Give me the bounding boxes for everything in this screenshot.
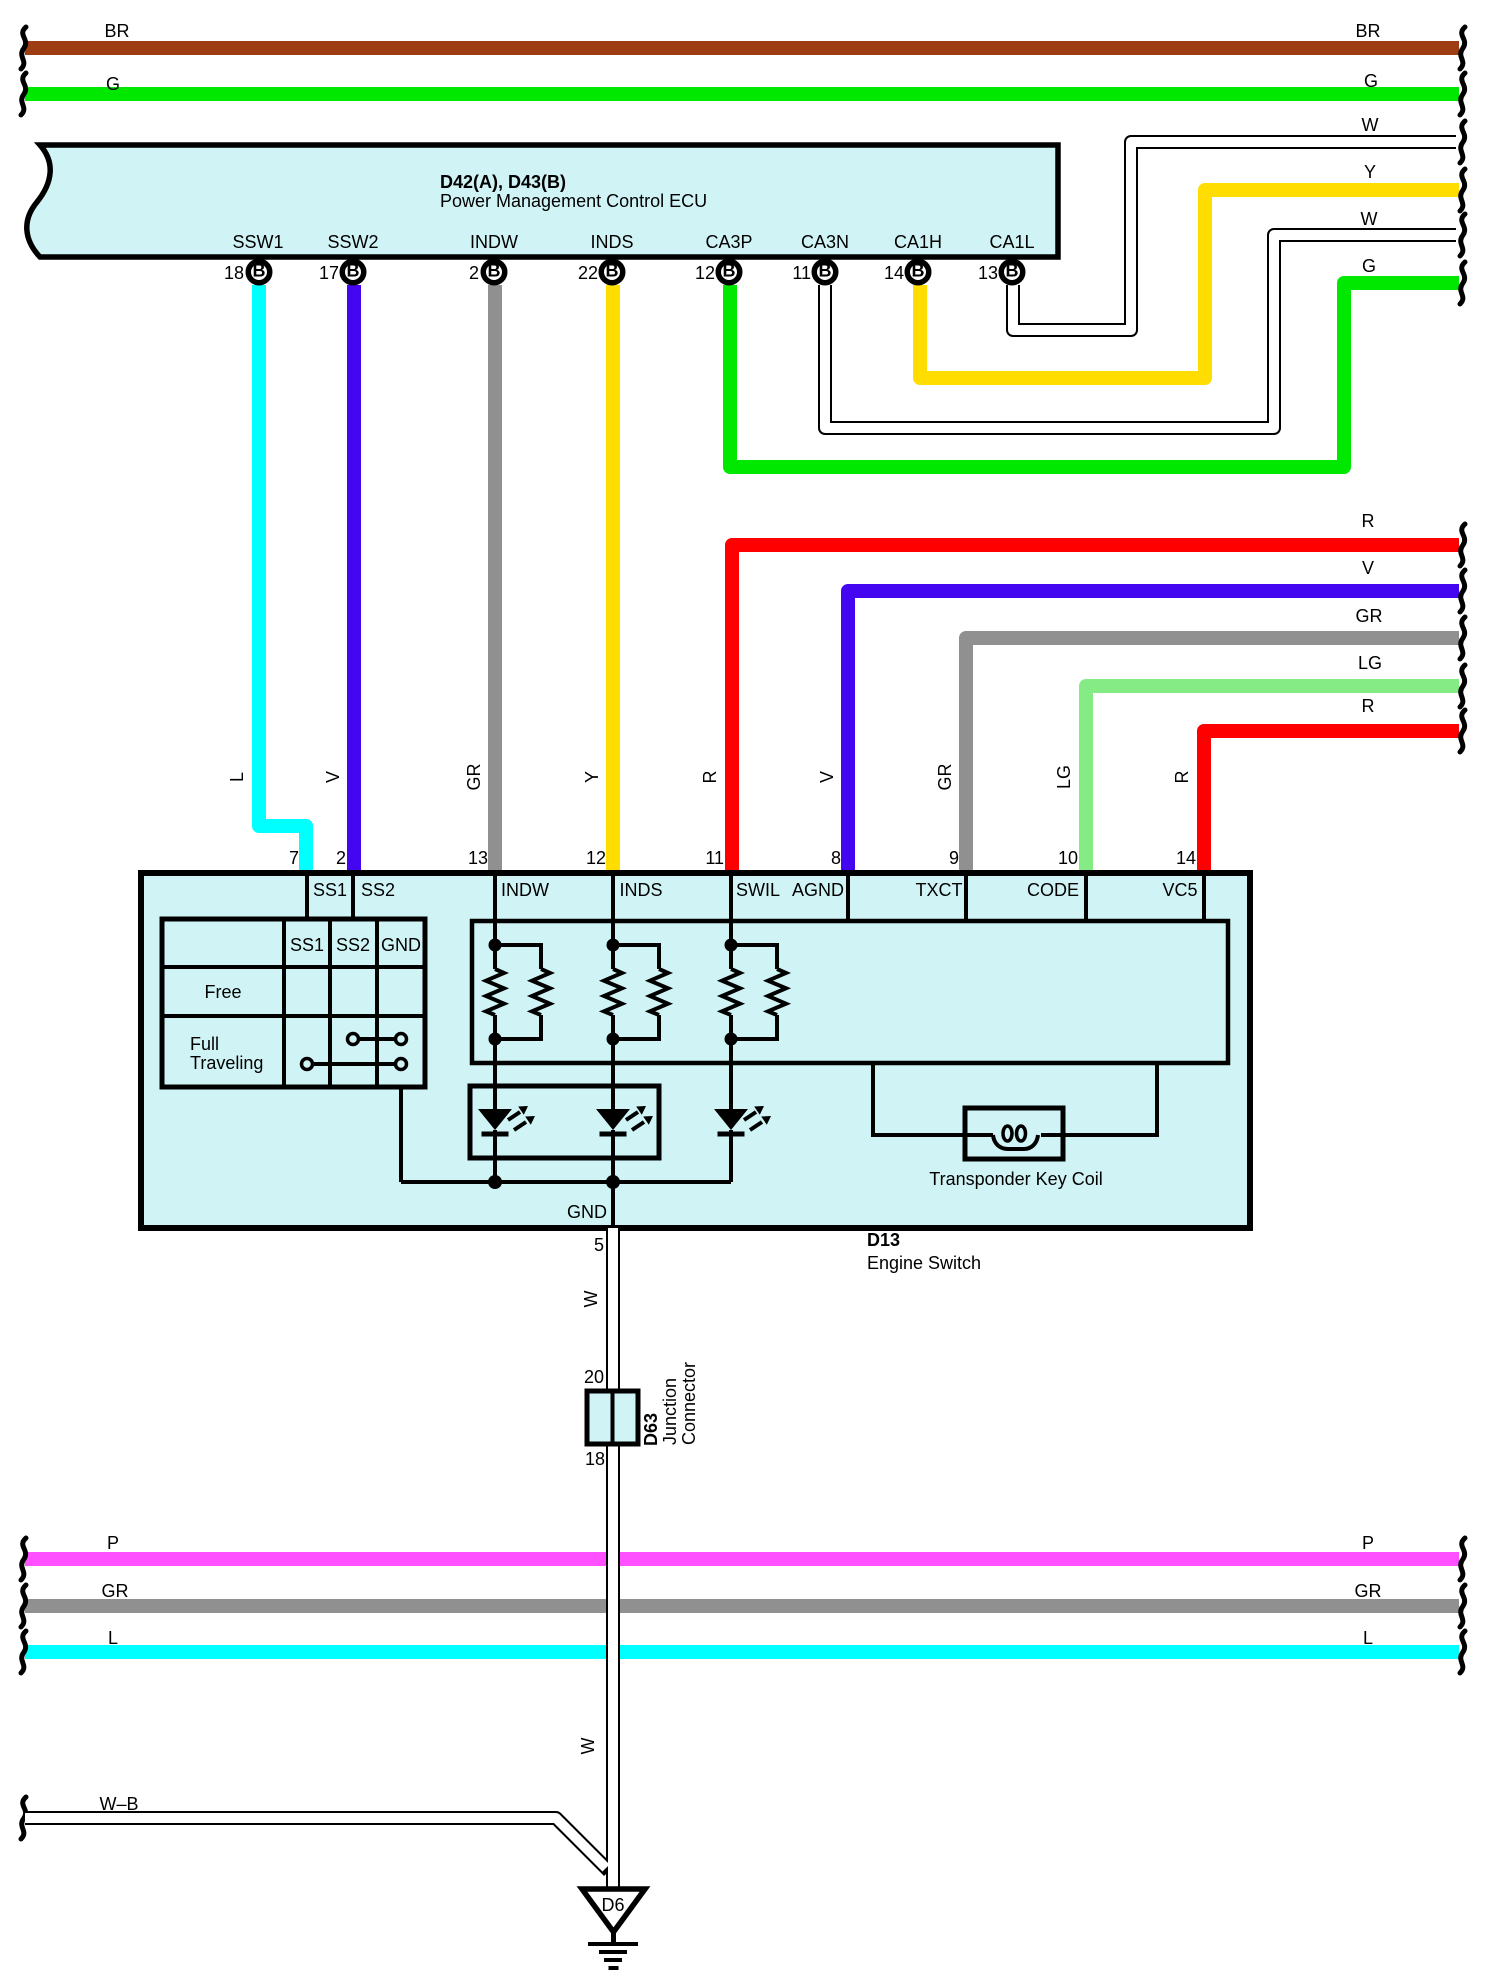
svg-text:G: G [106, 74, 120, 94]
table column line 1 [282, 919, 286, 1087]
svg-text:R: R [1362, 511, 1375, 531]
svg-text:SS2: SS2 [361, 880, 395, 900]
svg-text:Connector: Connector [679, 1362, 699, 1445]
connector brace G right [1460, 73, 1465, 115]
svg-text:V: V [1362, 558, 1374, 578]
pin stub CODE [1084, 873, 1088, 921]
svg-text:12: 12 [586, 848, 606, 868]
svg-text:W: W [578, 1738, 598, 1755]
svg-text:SS1: SS1 [290, 935, 324, 955]
svg-text:D6: D6 [601, 1895, 624, 1915]
svg-text:AGND: AGND [792, 880, 844, 900]
svg-text:GR: GR [1355, 1581, 1382, 1601]
wire INDS Y (yellow) to pin 12 [606, 285, 620, 873]
wire R (red) from right edge to SWIL pin 11 [732, 545, 1459, 873]
svg-text:13: 13 [468, 848, 488, 868]
svg-text:9: 9 [949, 848, 959, 868]
svg-text:G: G [1362, 256, 1376, 276]
connector brace P left [21, 1538, 26, 1580]
svg-text:R: R [1172, 771, 1192, 784]
svg-text:5: 5 [594, 1235, 604, 1255]
junction dot INDW/GND rail [488, 1175, 502, 1189]
table column line 3 [375, 919, 379, 1087]
svg-text:14: 14 [1176, 848, 1196, 868]
pin stub SS1 [305, 873, 309, 921]
ECU D42/D43 box [27, 145, 1058, 257]
svg-text:Y: Y [1364, 162, 1376, 182]
svg-text:CODE: CODE [1027, 880, 1079, 900]
svg-text:R: R [1362, 696, 1375, 716]
wire G bus (top) [25, 87, 1459, 101]
wire LG (light green) from right edge to CODE pin 10 [1086, 686, 1459, 873]
wire CA3P G (green) to right edge [730, 283, 1459, 467]
wire GND pin 5 inside box [611, 1182, 615, 1228]
svg-text:22: 22 [578, 263, 598, 283]
svg-text:Y: Y [582, 771, 602, 783]
connector brace R right 2 [1460, 710, 1465, 752]
table row line 1 [162, 965, 425, 969]
svg-text:2: 2 [336, 848, 346, 868]
connector brace GR left [21, 1585, 26, 1627]
svg-text:W–B: W–B [99, 1794, 138, 1814]
connector brace GR right 2 [1460, 617, 1465, 659]
svg-text:SS2: SS2 [336, 935, 370, 955]
pin stub AGND [846, 873, 850, 921]
wire GND column to ground rail [399, 1087, 403, 1182]
svg-text:Power Management Control ECU: Power Management Control ECU [440, 191, 707, 211]
svg-text:P: P [1362, 1533, 1374, 1553]
svg-text:Traveling: Traveling [190, 1053, 263, 1073]
connector brace Y right [1460, 169, 1465, 211]
svg-text:G: G [1364, 71, 1378, 91]
svg-text:R: R [700, 771, 720, 784]
svg-text:Transponder Key Coil: Transponder Key Coil [929, 1169, 1102, 1189]
svg-text:GR: GR [102, 1581, 129, 1601]
connector brace BR right [1460, 27, 1465, 69]
bus L (bottom) [25, 1645, 1459, 1659]
svg-text:L: L [227, 772, 247, 782]
svg-text:18: 18 [224, 263, 244, 283]
ground rail inside switch [401, 1180, 731, 1184]
svg-text:CA1H: CA1H [894, 232, 942, 252]
switch contact SS2-GND [353, 1037, 401, 1041]
ground hatch line 2 [599, 1950, 627, 1954]
svg-text:W: W [1362, 115, 1379, 135]
svg-text:D13: D13 [867, 1230, 900, 1250]
svg-text:Free: Free [204, 982, 241, 1002]
junction connector divider [611, 1391, 615, 1444]
svg-text:W: W [581, 1291, 601, 1308]
transponder key coil leads [873, 1063, 965, 1135]
connector brace W right 2 [1460, 214, 1465, 256]
resistor + LED unit SWIL (pin 11) [714, 873, 786, 1182]
svg-text:CA3N: CA3N [801, 232, 849, 252]
connector brace P right [1460, 1538, 1465, 1580]
svg-text:V: V [323, 771, 343, 783]
svg-text:BR: BR [1355, 21, 1380, 41]
coil lead left inside [965, 1133, 993, 1137]
svg-text:INDW: INDW [470, 232, 518, 252]
ground hatch line 4 [609, 1966, 619, 1970]
LED box [470, 1086, 659, 1158]
svg-text:Junction: Junction [660, 1378, 680, 1445]
bus P (bottom) [25, 1552, 1459, 1566]
junction connector D63 [587, 1391, 638, 1444]
svg-text:LG: LG [1054, 765, 1074, 789]
connector brace G left [21, 73, 26, 115]
svg-text:SWIL: SWIL [736, 880, 780, 900]
connector brace GR right [1460, 1585, 1465, 1627]
pin stub VC5 [1202, 873, 1206, 921]
svg-text:D63: D63 [641, 1413, 661, 1446]
connector brace L right [1460, 1631, 1465, 1673]
svg-text:TXCT: TXCT [916, 880, 963, 900]
resistor + LED unit INDS (pin 12) [596, 873, 668, 1182]
wire V (violet) from right edge to AGND pin 8 [848, 591, 1459, 873]
bus GR (bottom) [25, 1599, 1459, 1613]
svg-text:SSW1: SSW1 [232, 232, 283, 252]
pin stub TXCT [964, 873, 968, 921]
svg-text:V: V [817, 771, 837, 783]
wire CA1H Y (yellow) to right edge [920, 190, 1459, 378]
svg-text:2: 2 [469, 263, 479, 283]
svg-text:13: 13 [978, 263, 998, 283]
ground hatch line 3 [604, 1958, 622, 1962]
wire W-B ground lead [25, 1818, 609, 1871]
svg-text:GND: GND [567, 1202, 607, 1222]
svg-text:W: W [1361, 209, 1378, 229]
svg-text:GR: GR [1356, 606, 1383, 626]
junction dot INDS/GND rail [606, 1175, 620, 1189]
wire CA1L W (white) to right edge [1013, 142, 1456, 330]
wire CA3N W (white) to right edge [825, 235, 1456, 428]
connector brace L left [21, 1631, 26, 1673]
connector brace W right [1460, 121, 1465, 163]
svg-text:P: P [107, 1533, 119, 1553]
wire GR (gray) from right edge to TXCT pin 9 [966, 638, 1459, 873]
svg-text:11: 11 [792, 263, 811, 283]
svg-text:17: 17 [319, 263, 339, 283]
svg-text:SS1: SS1 [313, 880, 347, 900]
switch contact SS1-GND [307, 1062, 401, 1066]
svg-text:INDW: INDW [501, 880, 549, 900]
svg-text:D42(A), D43(B): D42(A), D43(B) [440, 172, 566, 192]
svg-text:CA3P: CA3P [705, 232, 752, 252]
svg-text:14: 14 [884, 263, 904, 283]
table row line 2 [162, 1014, 425, 1018]
resistor + LED unit INDW (pin 13) [478, 873, 550, 1182]
Engine Switch D13 box [141, 873, 1250, 1228]
svg-text:INDS: INDS [590, 232, 633, 252]
svg-text:10: 10 [1058, 848, 1078, 868]
ground hatch line 1 [588, 1942, 638, 1946]
wire BR bus (top) [25, 41, 1459, 55]
ground stem [611, 1932, 616, 1944]
coil lead right inside [1041, 1133, 1063, 1137]
transponder key coil box [965, 1108, 1063, 1159]
resistor group box [472, 921, 1228, 1063]
ground symbol D6 [582, 1889, 645, 1932]
svg-text:GND: GND [381, 935, 421, 955]
svg-text:18: 18 [585, 1449, 605, 1469]
wire INDW GR (gray) to pin 13 [488, 285, 502, 873]
svg-text:INDS: INDS [619, 880, 662, 900]
svg-text:8: 8 [831, 848, 841, 868]
svg-text:SSW2: SSW2 [327, 232, 378, 252]
connector brace LG right [1460, 665, 1465, 707]
svg-text:LG: LG [1358, 653, 1382, 673]
svg-text:BR: BR [104, 21, 129, 41]
wire R (red) from right edge to VC5 pin 14 [1204, 731, 1459, 873]
connector brace G right 2 [1460, 262, 1465, 304]
table column line 2 [328, 919, 332, 1087]
svg-text:L: L [1363, 1628, 1373, 1648]
svg-text:VC5: VC5 [1162, 880, 1197, 900]
svg-text:7: 7 [289, 848, 299, 868]
pin stub SS2 [351, 873, 355, 921]
svg-text:11: 11 [705, 848, 724, 868]
svg-text:GR: GR [464, 763, 484, 790]
wire W (GND pin 5 to ground) [606, 1228, 620, 1889]
svg-text:L: L [108, 1628, 118, 1648]
svg-text:Engine Switch: Engine Switch [867, 1253, 981, 1273]
wire SSW1 L (cyan) to engine switch pin 7 [259, 285, 306, 873]
svg-text:GR: GR [935, 763, 955, 790]
wire SSW2 V (violet) to pin 2 [347, 285, 361, 873]
switch state table [162, 919, 425, 1087]
svg-text:12: 12 [695, 263, 715, 283]
svg-text:CA1L: CA1L [989, 232, 1034, 252]
svg-text:Full: Full [190, 1034, 219, 1054]
connector brace BR left [21, 27, 26, 69]
svg-text:20: 20 [584, 1367, 604, 1387]
connector brace V right [1460, 570, 1465, 612]
connector brace R right [1460, 524, 1465, 566]
